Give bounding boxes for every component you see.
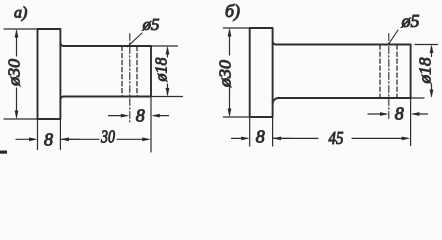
svg-text:б): б) [225,1,240,22]
shaft length dim 30 [62,138,99,140]
wire: shaft end edge extended down [410,98,412,146]
svg-text:а): а) [14,5,27,22]
svg-text:8: 8 [395,104,404,124]
wire: shaft bottom edge extension for dia18 [151,96,183,98]
svg-text:45: 45 [329,128,344,148]
page mark bottom left [0,151,7,154]
flange width dim 8 [16,138,35,140]
svg-text:ø5: ø5 [401,11,420,31]
leader to dia5 [127,33,142,47]
hole position dim 8 (to shaft end) [109,115,127,117]
svg-text:8: 8 [44,129,53,149]
svg-text:30: 30 [100,127,115,147]
wire: flange edges extended down for width dim [38,119,61,150]
svg-text:8: 8 [256,127,265,147]
flange body (dia30 x 8) [38,29,61,119]
dia18 dimension line right [431,47,433,57]
wire: top extension line of flange / dia30 [4,28,38,30]
dia18 dimension line [167,48,169,57]
shaft body (dia18 x 30) with fillets [60,43,151,46]
shaft length dim 45 [273,137,318,139]
wire: bottom extension line of flange / dia30 [223,116,249,118]
svg-text:ø18: ø18 [416,57,435,85]
wire: bottom extension line of flange / dia30 [4,118,38,120]
wire: shaft top edge extension for dia18 [415,44,438,46]
hole dia5 hidden lines [121,47,123,97]
flange width dim 8 right [232,137,248,139]
hole position dim 8 right [368,113,386,115]
wire: shaft top edge extension for dia18 [151,45,178,47]
hole centerline right [388,34,390,121]
wire: shaft bottom edge extension for dia18 [411,97,424,99]
svg-text:ø18: ø18 [152,57,171,82]
hole centerline [129,34,131,123]
wire: flange edges extended down [250,117,273,146]
svg-text:ø30: ø30 [5,58,24,87]
shaft body right with fillets [273,41,411,44]
svg-text:ø30: ø30 [215,59,234,88]
hole dia5 hidden lines right [379,45,381,98]
svg-text:ø5: ø5 [142,15,160,34]
wire: top extension line of flange / dia30 [223,27,249,29]
leader to dia5 right [389,30,398,44]
dia30 dimension line left [16,31,18,56]
wire: shaft end edge extended down [150,97,152,153]
dia30 dimension line right drawing [229,30,231,55]
flange body right [250,28,273,117]
svg-text:8: 8 [136,105,145,125]
